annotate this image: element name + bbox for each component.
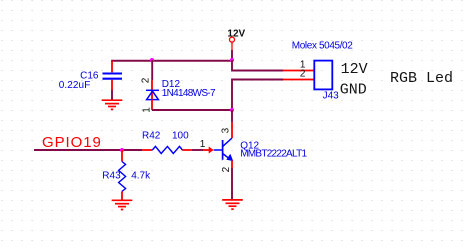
pin 2 stub of J43 [283,79,314,81]
svg-text:R43: R43 [102,171,121,182]
svg-text:RGB Led: RGB Led [390,70,453,87]
wire C16 to ground [111,90,113,100]
connector J43 body [314,61,332,90]
svg-text:12V: 12V [341,61,368,78]
svg-text:0.22uF: 0.22uF [59,80,91,91]
capacitor C16 top pin [111,61,113,73]
svg-text:Molex 5045/02: Molex 5045/02 [292,40,353,51]
ground under C16 [102,100,123,109]
wire collector pin to junction [231,110,233,122]
transistor Q12 base bar [222,140,224,160]
wire 12V vertical to junction [231,50,233,62]
transistor Q12 collector pin [231,122,233,138]
junction at collector net [230,108,234,112]
wire collector to connector pin2 [232,80,283,111]
svg-text:1: 1 [200,139,206,150]
svg-text:4.7k: 4.7k [131,171,151,182]
ground under R43 [112,200,133,209]
ground under Q12 [222,200,243,209]
wire 12V horizontal rail [111,60,233,62]
junction at D12 top [150,58,154,62]
diode D12 bottom pin [151,100,153,110]
svg-text:2: 2 [140,77,151,83]
svg-text:J43: J43 [323,90,340,101]
svg-text:1: 1 [141,107,152,113]
pin 1 stub of J43 [283,70,314,72]
transistor Q12 emitter arrow [226,154,233,161]
wire GPIO19 [34,149,142,151]
transistor Q12 base lead [214,149,223,151]
svg-text:1N4148WS-7: 1N4148WS-7 [162,88,216,99]
capacitor C16 bottom pin [111,80,113,90]
resistor R43 bottom pin [121,192,123,200]
resistor R42 left pin [142,149,152,151]
svg-text:100: 100 [172,131,189,142]
transistor Q12 emitter lead [223,154,232,161]
resistor R42 body [152,146,182,153]
transistor Q12 collector lead [223,138,232,147]
resistor R43 body [119,162,126,192]
wire 12V junction to D12 [151,60,153,80]
red arrow into Q12 base [209,147,214,154]
resistor R42 right pin [182,149,191,151]
wire D12 anode to collector net [152,109,233,111]
svg-text:R42: R42 [142,131,161,142]
diode D12 symbol [146,90,159,99]
wire junction to connector pin1 [232,60,283,71]
svg-text:3: 3 [220,127,231,133]
svg-text:MMBT2222ALT1: MMBT2222ALT1 [240,149,307,160]
svg-text:2: 2 [221,166,232,172]
power port 12V circle symbol [230,37,235,50]
resistor R43 top pin [121,150,123,162]
junction at R43 top [120,148,124,152]
red wire segment into base arrow [203,149,210,151]
junction at 12V drop [230,58,234,62]
transistor Q12 emitter pin [231,161,233,169]
svg-text:2: 2 [300,69,306,80]
svg-text:GND: GND [340,82,367,99]
capacitor C16 plates [103,74,123,79]
wire R42 to Q12 base [192,149,203,151]
diode D12 top pin [151,80,153,99]
svg-text:GPIO19: GPIO19 [42,134,101,151]
wire emitter to ground [231,168,233,199]
